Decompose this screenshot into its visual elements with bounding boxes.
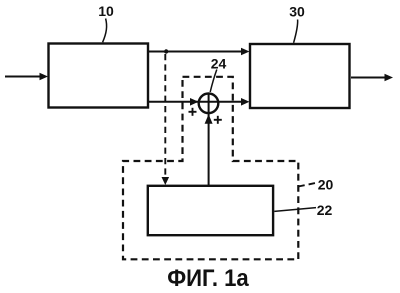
wire bottom: block 10 through adder to block 30 xyxy=(149,101,244,103)
wire top: block 10 to block 30 xyxy=(149,51,244,53)
dashed box 20 outline with protrusion around adder xyxy=(123,77,298,259)
leader line to adder xyxy=(210,70,217,93)
plus sign right xyxy=(214,119,222,121)
node junction dot xyxy=(164,49,168,53)
leader line to block 22 xyxy=(274,208,316,212)
leader line to block 30 xyxy=(294,20,298,43)
wire input arrow into block 10 xyxy=(5,76,41,78)
block 30 xyxy=(250,44,350,108)
svg-text:20: 20 xyxy=(318,177,334,193)
dashed feedback wire down from junction xyxy=(164,54,166,178)
leader line to block 10 xyxy=(103,19,107,43)
wire: rect 22 up into adder xyxy=(208,94,210,186)
dashed leader line to box 20 xyxy=(298,183,315,187)
block 10 xyxy=(49,44,149,108)
plus sign left xyxy=(189,111,197,113)
svg-text:24: 24 xyxy=(211,55,227,71)
op-amp summing circle 24 xyxy=(199,94,219,114)
svg-text:ФИГ. 1а: ФИГ. 1а xyxy=(167,265,249,292)
svg-text:30: 30 xyxy=(289,3,305,19)
wire output arrow from block 30 xyxy=(351,77,386,79)
block 22 xyxy=(148,186,273,235)
svg-text:10: 10 xyxy=(98,3,114,19)
svg-text:22: 22 xyxy=(317,202,333,218)
